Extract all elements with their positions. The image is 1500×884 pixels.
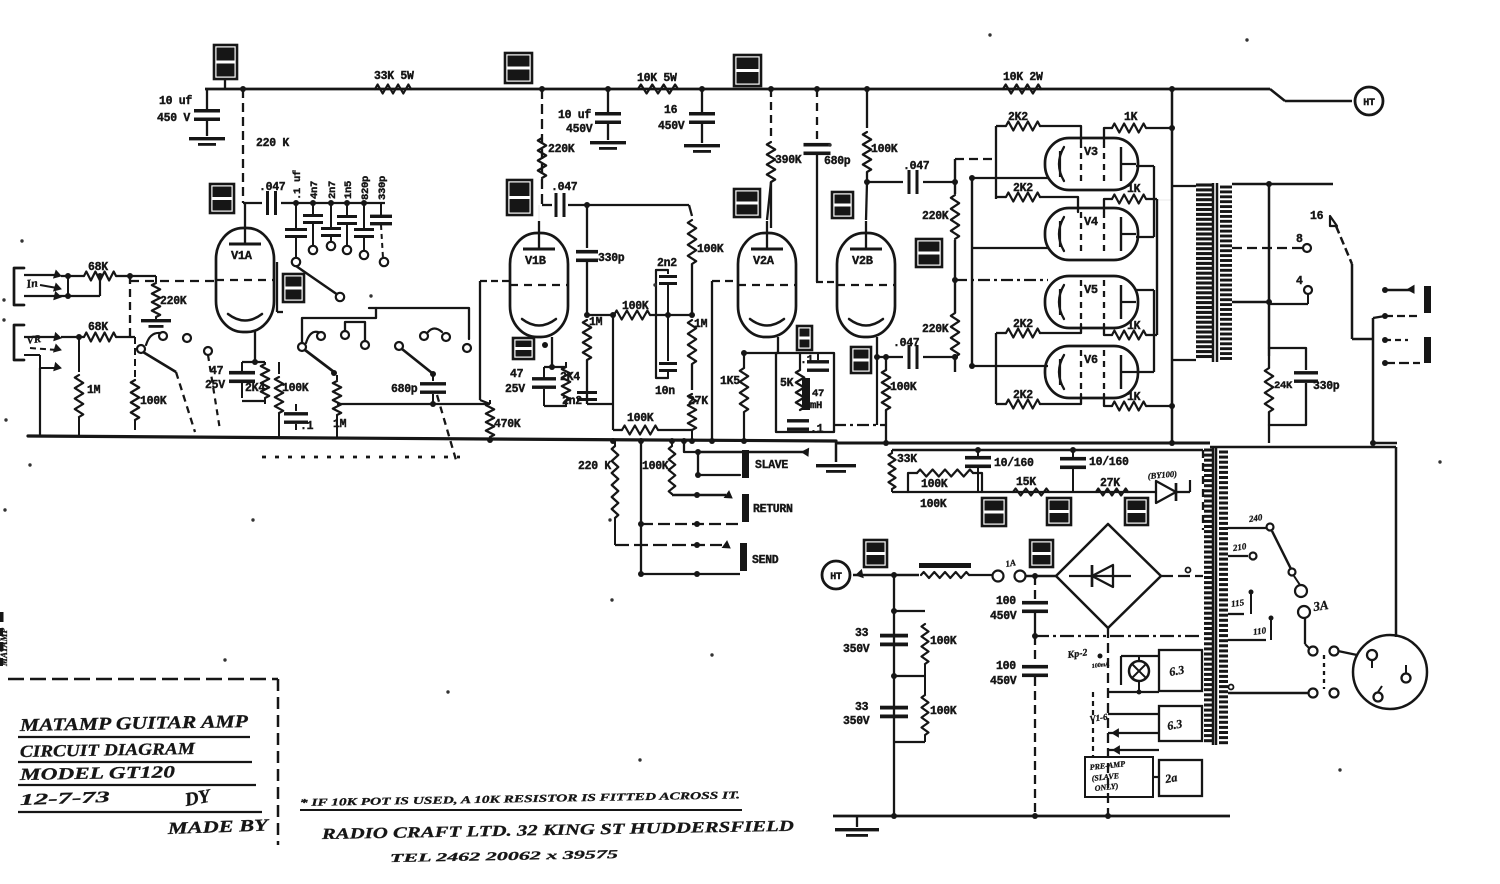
svg-text:.1 uf: .1 uf	[292, 170, 304, 200]
svg-text:2K2: 2K2	[1013, 182, 1033, 195]
svg-text:1M: 1M	[87, 384, 101, 397]
svg-text:SEND: SEND	[752, 554, 779, 567]
resistor 1K (V4)	[1104, 183, 1157, 212]
svg-text:330p: 330p	[598, 252, 625, 265]
resistor 100K sw	[131, 337, 167, 430]
svg-text:47: 47	[210, 365, 224, 378]
switch wiring top2	[345, 308, 469, 341]
resistor 220K PI bot	[922, 313, 959, 360]
wire psu mid dashdot	[1035, 635, 1203, 637]
svg-text:2n2: 2n2	[562, 395, 582, 408]
wire send sleeve	[638, 524, 740, 577]
svg-text:210: 210	[1231, 541, 1247, 553]
bridge rectifier	[1056, 524, 1161, 628]
svg-text:25V: 25V	[505, 383, 525, 396]
svg-text:240: 240	[1247, 512, 1263, 524]
resistor 27K bias	[1096, 477, 1128, 496]
plug pin N	[1402, 665, 1411, 683]
wire gang dashes	[262, 456, 460, 459]
capacitor 16 450V	[658, 89, 720, 153]
svg-text:33: 33	[855, 627, 869, 640]
resistor 1M left v	[583, 320, 591, 404]
tube V6	[1045, 346, 1138, 398]
switch wafer2 wiring top	[302, 308, 376, 343]
svg-text:V3: V3	[1084, 145, 1098, 159]
capacitor 33 350V b	[843, 701, 908, 728]
wire HT bus right	[1169, 89, 1175, 443]
svg-text:470K: 470K	[494, 418, 521, 431]
svg-text:4: 4	[1296, 275, 1303, 288]
capacitor .1uf bright	[285, 203, 307, 266]
jack SEND	[740, 543, 779, 571]
tube V4	[1045, 208, 1138, 260]
svg-text:.1: .1	[810, 423, 824, 436]
wire 2K2 link upper	[995, 126, 997, 199]
resistor 1M input	[75, 334, 101, 437]
heater wiring c	[1108, 746, 1159, 777]
label 2n7	[327, 181, 339, 199]
capacitor 4n7 bright	[303, 203, 323, 254]
stamp 22a E2p	[507, 180, 532, 215]
svg-text:10/160: 10/160	[1089, 456, 1129, 469]
svg-text:2K2: 2K2	[1013, 318, 1033, 331]
svg-text:V2B: V2B	[852, 254, 873, 268]
svg-text:220K: 220K	[922, 323, 949, 336]
heater box 6.3b	[1159, 706, 1202, 741]
stamp small V2A	[797, 326, 812, 350]
wire screen bus right	[1156, 199, 1158, 335]
svg-text:100K: 100K	[930, 635, 957, 648]
tube V1B	[510, 221, 568, 337]
heater vertical	[1092, 692, 1094, 757]
capacitor 680p (V2)	[804, 86, 851, 282]
HT terminal (psu)	[822, 561, 850, 589]
output transformer T1	[1196, 183, 1232, 362]
wire bottom left rail	[28, 436, 836, 441]
svg-text:2K4: 2K4	[560, 371, 580, 384]
wire V2A anode	[767, 182, 771, 220]
heater wiring a	[1108, 656, 1159, 695]
svg-text:24K: 24K	[1274, 380, 1293, 392]
fb ladder wires	[656, 270, 668, 378]
title box border	[8, 679, 278, 845]
svg-text:MADE BY: MADE BY	[166, 815, 270, 838]
svg-text:110: 110	[1252, 625, 1267, 637]
mains plug	[1353, 635, 1427, 709]
resistor 27K	[688, 394, 708, 441]
switch mains pole1	[1305, 644, 1339, 656]
resistor 68K upper	[61, 261, 130, 281]
label 16 tap	[1310, 210, 1337, 226]
wire jack1 tip	[24, 271, 61, 291]
wire 1M bottom	[40, 368, 65, 437]
svg-text:10 uf: 10 uf	[159, 95, 192, 108]
svg-text:115: 115	[1230, 597, 1245, 609]
wire PI stub 5	[969, 363, 1048, 369]
resistor 68K lower	[61, 321, 135, 342]
tap 115	[1228, 590, 1254, 615]
heater wiring b	[1108, 714, 1159, 737]
mains transformer T2	[1204, 447, 1228, 745]
wire OT sec mid	[1232, 301, 1269, 304]
stamp 4c2c mid	[734, 189, 760, 217]
capacitor 2n7 bright	[321, 203, 341, 250]
wire OT sec top	[1232, 183, 1333, 186]
wire plate tie upper	[1136, 166, 1172, 237]
svg-text:100K: 100K	[622, 300, 649, 313]
wire jack2 tip	[24, 333, 61, 352]
wire PI stub 3	[972, 247, 1048, 249]
svg-text:10K 2W: 10K 2W	[1003, 71, 1043, 84]
svg-text:220 K: 220 K	[256, 137, 289, 150]
resistor 390K	[767, 89, 802, 228]
hw title line3	[18, 762, 256, 785]
capacitor .047 (V1B)	[551, 181, 578, 217]
svg-text:2K2: 2K2	[1013, 389, 1033, 402]
capacitor .1 (sw)	[284, 404, 314, 433]
resistor 15K	[1013, 476, 1049, 496]
resistor 33K 5W	[374, 70, 414, 94]
hw MADE BY	[166, 815, 270, 838]
svg-text:MATAMP GUITAR AMP: MATAMP GUITAR AMP	[19, 711, 250, 735]
wire 220K V1B drop	[542, 89, 575, 205]
wire sw row	[337, 401, 490, 407]
speaker jack 1	[1382, 286, 1431, 320]
svg-text:450V: 450V	[658, 120, 685, 133]
label .1 uf	[292, 170, 304, 200]
capacitor 330p (V1B)	[576, 205, 625, 315]
switch wafer1 arm	[143, 333, 220, 432]
resistor 100K psu a	[891, 608, 957, 679]
wire HT feed	[853, 570, 919, 578]
svg-text:HT: HT	[1363, 98, 1375, 109]
svg-text:100K: 100K	[627, 412, 654, 425]
wire mains top	[1210, 447, 1396, 637]
svg-text:220K: 220K	[922, 210, 949, 223]
label 4 tap	[1269, 275, 1312, 304]
svg-text:47: 47	[812, 388, 824, 400]
resistor 10K 2W	[1003, 71, 1043, 94]
capacitor .047 (V1A grid)	[259, 181, 286, 215]
wire mains bottom	[1228, 651, 1357, 693]
plug pin E	[1374, 686, 1383, 702]
svg-text:16: 16	[1310, 210, 1324, 223]
svg-text:.047: .047	[259, 181, 286, 194]
switch arm bright	[296, 266, 344, 301]
svg-text:100K: 100K	[921, 478, 948, 491]
svg-text:.047: .047	[903, 160, 930, 173]
wire bright-cap bus	[296, 200, 385, 206]
wire 33 chain	[893, 575, 895, 816]
plug pin L	[1367, 650, 1377, 668]
resistor 100K (V2B)	[882, 354, 917, 441]
svg-text:2n2: 2n2	[657, 257, 677, 270]
svg-text:100K: 100K	[140, 395, 167, 408]
resistor 100K psu b	[894, 676, 957, 742]
resistor 2K4 (V1A)	[242, 362, 269, 404]
fuse dropper	[919, 563, 992, 578]
svg-text:390K: 390K	[775, 154, 802, 167]
resistor 1M right v	[688, 320, 696, 390]
svg-text:15K: 15K	[1016, 476, 1036, 489]
tap 210	[1228, 541, 1257, 559]
svg-text:4n7: 4n7	[309, 181, 321, 199]
svg-text:1M: 1M	[333, 418, 347, 431]
stamp 42c top	[505, 53, 532, 83]
wire V2A cath to 1K5	[741, 350, 778, 356]
switch speaker blade	[1336, 226, 1352, 339]
input jack 1	[14, 268, 39, 305]
svg-text:1n5: 1n5	[343, 181, 355, 199]
stamp V2B top	[832, 192, 853, 218]
svg-text:1K: 1K	[1127, 320, 1141, 333]
speaker jack 2	[1382, 337, 1431, 366]
svg-text:820p: 820p	[360, 176, 372, 200]
hw title line1	[18, 711, 250, 737]
svg-text:CIRCUIT DIAGRAM: CIRCUIT DIAGRAM	[20, 739, 196, 761]
svg-text:100K: 100K	[890, 381, 917, 394]
diode BY100	[1147, 468, 1190, 503]
svg-text:1K: 1K	[1124, 111, 1138, 124]
switch wafer2 arm1	[305, 329, 442, 377]
svg-text:220 K: 220 K	[578, 460, 611, 473]
svg-text:SLAVE: SLAVE	[755, 459, 788, 472]
capacitor 10/160 a	[965, 450, 1034, 492]
wire V2A grid	[712, 281, 738, 441]
resistor 470K	[486, 400, 521, 441]
stamp KJ (V1B)	[513, 338, 548, 359]
svg-text:220K: 220K	[160, 295, 187, 308]
hw PRE-AMP box	[1085, 757, 1153, 797]
pilot lamp	[1129, 661, 1149, 681]
wire bridge right	[1161, 568, 1203, 577]
hw address	[320, 818, 794, 843]
wire spk common	[1352, 316, 1385, 443]
resistor 1K (V6)	[1104, 391, 1172, 411]
resistor 33K bias	[889, 450, 918, 492]
svg-text:68K: 68K	[88, 261, 108, 274]
capacitor 10uf 450V (left)	[157, 89, 225, 146]
hw title date	[18, 785, 262, 812]
stamp psu-right	[1030, 540, 1053, 567]
stamp 4c2c top	[734, 55, 761, 86]
left margin scrawl	[0, 612, 9, 667]
wire OT primary top	[1172, 185, 1196, 187]
svg-text:16: 16	[664, 104, 678, 117]
svg-text:10/160: 10/160	[994, 457, 1034, 470]
wire V2A cathode	[777, 337, 779, 353]
resistor 100K mid	[614, 300, 708, 331]
svg-text:1K: 1K	[1127, 391, 1141, 404]
wire PI stub 4	[952, 277, 1048, 283]
svg-text:12-7-73: 12-7-73	[20, 789, 111, 809]
svg-text:.047: .047	[551, 181, 578, 194]
svg-text:8: 8	[1296, 233, 1303, 246]
capacitor 2n2 (V1B cath)	[562, 391, 597, 408]
wire OT primary bottom	[1172, 359, 1196, 361]
stamp bias3	[1125, 498, 1148, 525]
svg-text:450 V: 450 V	[157, 112, 190, 125]
inductor 47mH	[802, 378, 824, 412]
wire V2B grid	[816, 281, 837, 283]
svg-text:RETURN: RETURN	[753, 503, 793, 516]
resistor 100K (return)	[642, 441, 675, 495]
stamp 6a7c	[214, 45, 237, 89]
ground (psu)	[835, 816, 879, 837]
wire 220K drop	[243, 89, 289, 203]
svg-text:330p: 330p	[1313, 380, 1340, 393]
switch wafer2 contacts	[298, 331, 471, 352]
svg-text:V4: V4	[1084, 215, 1098, 229]
svg-text:47: 47	[510, 368, 524, 381]
label 4n7	[309, 181, 321, 199]
wire V1A anode	[244, 203, 246, 216]
heater box preamp	[1159, 760, 1202, 796]
svg-text:2K4: 2K4	[245, 382, 265, 395]
switch mains blade	[1272, 531, 1296, 576]
capacitor 47 25V (V1A)	[205, 362, 255, 398]
svg-text:450V: 450V	[566, 123, 593, 136]
svg-text:100K: 100K	[871, 143, 898, 156]
stamp -10-62	[916, 239, 942, 267]
svg-text:V2A: V2A	[753, 254, 775, 268]
capacitor 33 350V a	[843, 627, 908, 656]
label 330p	[377, 176, 389, 200]
wire top HT rail	[205, 86, 1352, 101]
stamp psu-left	[864, 540, 887, 567]
tremolo box	[776, 353, 834, 432]
hw note	[300, 790, 742, 810]
resistor 1K (V3)	[1104, 111, 1172, 142]
tube V2B	[837, 221, 895, 337]
jack SLAVE	[742, 450, 788, 478]
resistor 2K4 (V1B)	[544, 362, 580, 407]
svg-text:350V: 350V	[843, 715, 870, 728]
svg-text:33K 5W: 33K 5W	[374, 70, 414, 83]
svg-text:350V: 350V	[843, 643, 870, 656]
wire V1A grid row	[243, 200, 299, 206]
label 820p	[360, 176, 372, 200]
resistor 1K5	[720, 353, 748, 441]
resistor 100K bottom	[587, 315, 692, 435]
svg-text:450V: 450V	[990, 675, 1017, 688]
switch mains pole2	[1309, 655, 1339, 698]
svg-text:VR: VR	[26, 333, 42, 347]
svg-text:V5: V5	[1084, 283, 1098, 297]
resistor 2K2 (V6)	[996, 389, 1081, 409]
ground (preamp)	[816, 441, 856, 473]
stamp bias1	[982, 498, 1006, 526]
hw V1-6	[1089, 712, 1109, 724]
label 8 tap	[1232, 233, 1311, 252]
wire V1B grid row	[542, 202, 689, 208]
svg-text:100: 100	[996, 595, 1016, 608]
HT terminal (output)	[1355, 87, 1383, 115]
svg-text:33: 33	[855, 701, 869, 714]
svg-text:3A: 3A	[1311, 597, 1329, 614]
capacitor .1 (trem bot)	[787, 419, 824, 436]
wire 1M row	[584, 312, 616, 329]
svg-text:V1B: V1B	[525, 254, 546, 268]
capacitor 100 450V b	[990, 636, 1048, 816]
svg-text:6.3: 6.3	[1166, 717, 1183, 733]
potentiometer 100K bias	[908, 470, 982, 512]
wire send tip	[615, 541, 730, 548]
resistor 220 K (send)	[578, 441, 618, 545]
wire V1B grid left	[480, 281, 510, 404]
capacitor 330p (out)	[1269, 348, 1340, 425]
capacitor 10n (fb)	[655, 315, 677, 398]
resistor 2K2 (V5)	[996, 318, 1081, 338]
svg-text:100K: 100K	[920, 498, 947, 511]
fuse 3A	[1294, 576, 1330, 644]
svg-text:33K: 33K	[897, 453, 917, 466]
resistor 100K (V1A)	[275, 362, 309, 437]
svg-text:2n7: 2n7	[327, 181, 339, 199]
svg-text:.1: .1	[300, 420, 314, 433]
wire jack1 ring	[24, 292, 71, 300]
svg-text:In: In	[24, 275, 38, 291]
wire preamp bottom rail	[487, 437, 747, 444]
svg-text:100K: 100K	[282, 382, 309, 395]
wire plate tie lower	[1136, 290, 1154, 372]
hw Kp-2	[1066, 647, 1110, 670]
resistor 1K (V5)	[1104, 320, 1157, 340]
resistor 2K2 (V3)	[996, 111, 1081, 142]
resistor 100K (V2B top)	[863, 89, 898, 220]
stamp bias2	[1047, 498, 1071, 525]
svg-text:680p: 680p	[391, 383, 418, 396]
resistor 220K PI top	[922, 179, 959, 239]
resistor 220K input	[127, 273, 187, 328]
heater box 6.3a	[1159, 650, 1202, 691]
svg-text:27K: 27K	[1100, 477, 1120, 490]
resistor 24K	[1265, 356, 1293, 443]
wire return tip	[672, 491, 732, 498]
wire slave loop	[684, 441, 809, 478]
capacitor .1 (trem top)	[800, 353, 829, 372]
tube V2A	[738, 221, 796, 337]
switch wafer2 arm2	[402, 349, 436, 377]
svg-text:.047: .047	[893, 337, 920, 350]
wire PI stub 1	[955, 158, 996, 160]
wire V1A cathode down	[252, 330, 258, 365]
switch wafer1 contacts	[137, 332, 212, 355]
svg-text:100: 100	[996, 660, 1016, 673]
stamp K7 (V1A)	[277, 262, 304, 312]
svg-text:MODEL GT120: MODEL GT120	[18, 762, 175, 784]
capacitor .047 (to PI)	[867, 160, 955, 194]
wire mains top riser	[1370, 440, 1397, 446]
svg-text:5K: 5K	[780, 377, 794, 390]
hw phone	[390, 847, 618, 865]
wire jack2 sleeve	[24, 355, 61, 371]
tube V3	[1045, 138, 1138, 190]
stamp 14v19d	[210, 184, 234, 213]
svg-text:1K5: 1K5	[720, 375, 740, 388]
potentiometer 5K	[780, 353, 804, 410]
wire trem to 100K	[834, 424, 886, 426]
svg-text:V1A: V1A	[231, 249, 253, 263]
svg-text:450V: 450V	[990, 610, 1017, 623]
resistor 1M (sw)	[333, 375, 347, 437]
wire 2K2 link lower	[995, 333, 997, 404]
wire psu bottom rail	[833, 813, 1230, 819]
svg-text:68K: 68K	[88, 321, 108, 334]
svg-text:220K: 220K	[548, 143, 575, 156]
svg-text:10K 5W: 10K 5W	[637, 72, 677, 85]
bias rail mid	[892, 491, 1156, 493]
